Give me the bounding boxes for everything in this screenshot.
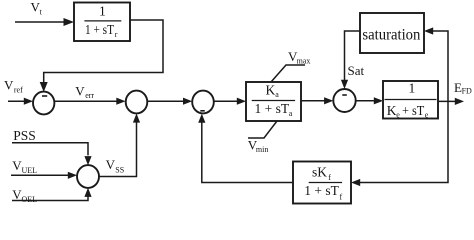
summing junction 4 [333,89,355,112]
wire from Tr block to summing junction 1 [40,20,163,92]
svg-text:1 + sT: 1 + sT [85,22,115,37]
label VUEL [12,158,37,175]
minus sign at summing junction 1 [42,95,47,97]
svg-text:sK: sK [312,165,327,180]
label Vmin [248,138,269,154]
svg-text:V: V [4,78,14,93]
svg-text:FD: FD [462,87,472,96]
summing junction 2 [126,91,148,114]
svg-text:max: max [297,57,311,66]
label EFD [454,80,472,96]
svg-text:ref: ref [14,85,23,94]
svg-text:f: f [328,173,331,182]
svg-text:V: V [106,157,116,172]
label Verr [75,83,94,99]
label Vref [4,78,23,95]
svg-text:1: 1 [99,3,106,18]
svg-text:e: e [425,110,429,119]
svg-text:UEL: UEL [22,166,38,175]
summing junction 3 [192,91,214,114]
value saturation inside saturation block [362,27,420,44]
minus sign at summing junction 4 [342,94,347,96]
svg-text:PSS: PSS [13,128,36,143]
svg-text:f: f [340,192,343,201]
wire VUEL input arrow [11,172,77,179]
limit symbol Vmin [248,121,277,138]
wire Ka block to summing junction 4 [301,97,333,104]
saturation block [360,13,424,53]
wire VSS to summing junction 2 [99,113,140,176]
svg-text:1 + sT: 1 + sT [304,183,339,198]
svg-text:K: K [387,103,397,118]
wire summing junction 2 to summing junction 3 [147,98,192,105]
label Vmax [288,49,310,66]
label Sat [348,63,365,78]
svg-text:OEL: OEL [22,195,38,204]
wire summing junction 1 to summing junction 2 [54,98,125,105]
value sKf/(1+sTf) inside feedback block [304,165,342,202]
svg-text:1 + sT: 1 + sT [255,101,290,116]
svg-text:V: V [75,83,85,98]
wire output EFD with takeoff node [438,98,464,105]
amplifier block Ka/(1+sTa) [246,82,301,121]
wire PSS to summing junction 5 [12,143,92,166]
minus sign at summing junction 3 [200,110,205,112]
wire saturation block to summing junction 4 [341,31,360,89]
limit symbol Vmax [271,65,305,82]
svg-text:K: K [266,82,276,97]
label VSS [106,157,125,175]
wire summing junction 4 to exciter block [356,97,383,104]
value Ka/(1+sTa) inside Ka block [252,82,295,118]
svg-text:r: r [115,30,118,39]
summing junction 1 [33,92,54,115]
svg-text:a: a [289,109,293,118]
svg-text:Sat: Sat [348,63,365,78]
svg-text:saturation: saturation [362,27,420,44]
wire output node up to saturation block [424,27,448,101]
svg-text:e: e [396,110,400,119]
wire output node down to sKf block [351,101,448,186]
feedback block sKf/(1+sTf) [293,162,351,204]
svg-text:1: 1 [409,80,416,95]
value 1/(Ke+sTe) inside exciter block [385,80,437,119]
wire Vt input arrow [15,18,74,26]
summing junction 5 [77,165,99,188]
svg-text:min: min [256,145,268,154]
svg-text:a: a [275,90,279,99]
label VOEL [12,187,37,204]
value 1/(1+sTr) inside Tr block [84,3,121,39]
wire summing junction 3 to Ka block [214,98,246,105]
svg-text:SS: SS [115,165,124,174]
wire Vref input arrow [8,98,33,105]
svg-text:t: t [40,7,43,16]
label PSS [13,128,36,143]
wire VOEL to summing junction 5 [12,188,92,201]
wire sKf block to summing junction 3 [198,114,293,183]
label Vt [31,0,43,16]
transfer function block 1/(1+sTr) [74,3,130,42]
svg-text:+ sT: + sT [402,103,425,118]
exciter block 1/(Ke+sTe) [383,81,438,119]
svg-text:err: err [85,91,94,100]
